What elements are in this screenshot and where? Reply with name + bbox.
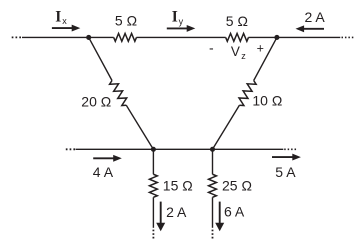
arrow 4A (points right) <box>93 157 113 159</box>
wire: bottom bus right dotted continuation <box>284 148 296 150</box>
wire: top bus left dotted continuation <box>12 36 22 38</box>
svg-text:25 Ω: 25 Ω <box>222 178 252 194</box>
svg-text:15 Ω: 15 Ω <box>163 178 193 194</box>
node D (bottom right junction) <box>210 147 215 152</box>
svg-text:10 Ω: 10 Ω <box>252 93 282 109</box>
resistor R3 20 ohm (left diagonal) <box>110 81 127 106</box>
svg-text:4 A: 4 A <box>93 164 114 180</box>
arrowhead Ix <box>72 25 81 32</box>
arrowhead 6A down <box>215 223 224 232</box>
resistor R4 10 ohm (right diagonal) <box>239 81 256 106</box>
wire: 15 ohm branch dotted continuation <box>152 230 154 240</box>
wire: right diagonal lower segment (10 ohm to node D) <box>213 105 240 149</box>
svg-text:5 Ω: 5 Ω <box>226 13 248 29</box>
svg-text:2 A: 2 A <box>305 9 326 25</box>
wire: 25 ohm branch dotted continuation <box>212 230 214 240</box>
svg-text:x: x <box>62 16 67 26</box>
node A (top left junction) <box>86 35 91 40</box>
resistor R5 15 ohm (vertical left) <box>149 174 157 197</box>
svg-text:z: z <box>241 51 246 61</box>
svg-text:y: y <box>179 16 184 26</box>
arrow 5A (points right) <box>272 156 293 158</box>
wire: top bus middle segment <box>136 36 225 38</box>
wire: bottom bus left dotted continuation <box>66 148 75 150</box>
wire: 15 ohm branch upper segment (node C down) <box>152 149 154 174</box>
arrow 2A top (points left) <box>304 28 324 30</box>
svg-text:2 A: 2 A <box>166 204 187 220</box>
resistor R2 5 ohm (top right) <box>226 34 249 42</box>
node C (bottom left junction) <box>151 147 156 152</box>
node B (top right junction) <box>274 35 279 40</box>
wire: 15 ohm branch lower segment <box>152 197 154 228</box>
arrow Iy (current arrow, points right) <box>167 27 187 29</box>
arrowhead 5A <box>292 154 301 161</box>
svg-text:20 Ω: 20 Ω <box>81 93 111 109</box>
arrowhead 2A top (left) <box>296 25 305 32</box>
svg-text:+: + <box>257 42 264 56</box>
svg-text:5 Ω: 5 Ω <box>115 13 137 29</box>
svg-text:5 A: 5 A <box>275 164 296 180</box>
wire: 25 ohm branch lower segment <box>212 197 214 228</box>
wire: right diagonal upper segment (node B to 10 ohm) <box>254 37 277 80</box>
arrowhead 2A down <box>156 223 165 232</box>
resistor R6 25 ohm (vertical right) <box>209 174 217 197</box>
svg-text:V: V <box>231 44 240 59</box>
wire: top bus left segment <box>22 36 114 38</box>
resistor R1 5 ohm (top left) <box>114 34 137 42</box>
svg-text:I: I <box>55 8 61 25</box>
svg-text:6 A: 6 A <box>224 204 245 220</box>
wire: left diagonal lower segment (20 ohm to node C) <box>126 105 153 149</box>
arrowhead Iy <box>187 25 196 32</box>
wire: top bus right segment <box>248 36 340 38</box>
arrow 2A down (15 ohm branch) <box>160 202 162 223</box>
svg-text:I: I <box>172 8 178 25</box>
arrowhead 4A <box>113 155 122 162</box>
arrow 6A down (25 ohm branch) <box>219 202 221 223</box>
wire: bottom bus <box>76 148 284 150</box>
svg-text:-: - <box>209 40 214 56</box>
wire: 25 ohm branch upper segment (node D down) <box>212 149 214 174</box>
wire: top bus right dotted continuation <box>342 36 354 38</box>
arrow Ix (current arrow, points right) <box>52 27 72 29</box>
wire: left diagonal upper segment (node A to 20 ohm) <box>89 37 112 80</box>
